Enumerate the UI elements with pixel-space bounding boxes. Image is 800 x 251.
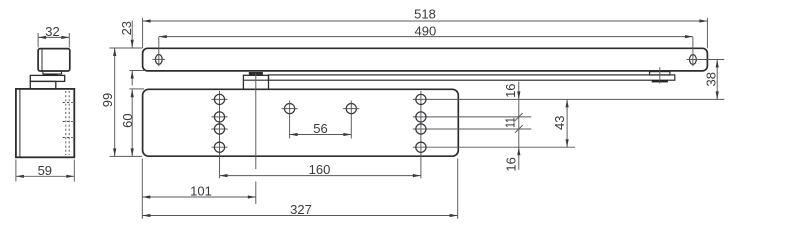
middle hole right cross <box>343 108 359 110</box>
svg-text:16: 16 <box>503 157 518 171</box>
slider shoe (side, dark) <box>43 74 57 76</box>
dimension 11 slash ticks <box>515 113 523 133</box>
svg-text:101: 101 <box>190 183 212 198</box>
svg-text:23: 23 <box>119 21 134 35</box>
right hole column line <box>420 91 422 178</box>
dimension 518 <box>143 18 708 49</box>
dimension 99 <box>114 48 116 156</box>
dimension 101 <box>142 159 256 219</box>
body top extension line <box>130 88 145 90</box>
slider tongue (side) <box>43 71 62 74</box>
slider centre line <box>659 67 661 83</box>
dimension 59 <box>16 160 74 182</box>
rail bottom extension line <box>130 70 145 72</box>
svg-text:43: 43 <box>552 116 567 130</box>
dimension 490 <box>159 37 693 67</box>
dimension 16 bottom <box>517 147 520 155</box>
dimension 38 <box>716 60 718 100</box>
svg-text:56: 56 <box>313 121 327 136</box>
arm bar <box>269 75 675 80</box>
slider block <box>650 72 670 75</box>
right column holes <box>416 94 426 152</box>
slide rail cross-section <box>38 49 70 71</box>
slider shoe (dark) <box>652 80 668 82</box>
right column hole row extension lines <box>413 99 725 147</box>
svg-text:11: 11 <box>503 117 518 128</box>
arm root block <box>243 75 268 89</box>
middle hole left cross <box>282 108 298 110</box>
svg-text:160: 160 <box>309 162 331 177</box>
svg-text:38: 38 <box>703 72 718 86</box>
svg-text:16: 16 <box>503 83 518 97</box>
middle hole right <box>346 104 356 114</box>
rail fixing hole left <box>155 55 162 65</box>
closer body (side) <box>16 89 74 157</box>
slide rail <box>143 48 708 71</box>
dimension 32 <box>38 33 69 48</box>
dimension 43 <box>566 99 568 147</box>
svg-text:490: 490 <box>415 23 437 38</box>
svg-text:327: 327 <box>290 202 312 217</box>
rail section inner edge line <box>41 49 43 70</box>
rail top extension line <box>110 47 143 49</box>
rail hole left cross lines <box>152 58 165 60</box>
svg-text:32: 32 <box>45 24 59 39</box>
svg-text:59: 59 <box>38 163 52 178</box>
dimension 160 <box>220 175 421 177</box>
dimension 327 <box>142 159 457 219</box>
middle hole left <box>285 104 295 114</box>
svg-text:99: 99 <box>100 93 115 107</box>
left column holes <box>214 94 224 152</box>
arm bottom line across hub block <box>244 79 268 81</box>
hidden detail dashed strip <box>63 91 73 155</box>
arm hub cap <box>249 73 262 76</box>
body bottom extension line <box>110 155 143 157</box>
arm root block (side) <box>30 81 56 89</box>
svg-text:518: 518 <box>414 7 436 22</box>
dimension 23 <box>131 21 133 86</box>
dimension 56 <box>290 134 352 136</box>
dimension 16 top <box>518 82 520 170</box>
left column hole ticks <box>211 99 227 147</box>
closer body <box>143 89 459 156</box>
arm (side) <box>30 75 64 81</box>
body side inner edge line <box>19 90 21 157</box>
dimension 60 <box>131 89 133 156</box>
pivot axis line <box>255 73 257 169</box>
svg-text:60: 60 <box>120 113 135 127</box>
rail fixing hole right <box>690 55 697 65</box>
left hole column line <box>219 91 221 178</box>
rail hole right cross line extended to dim 38 <box>687 59 725 61</box>
